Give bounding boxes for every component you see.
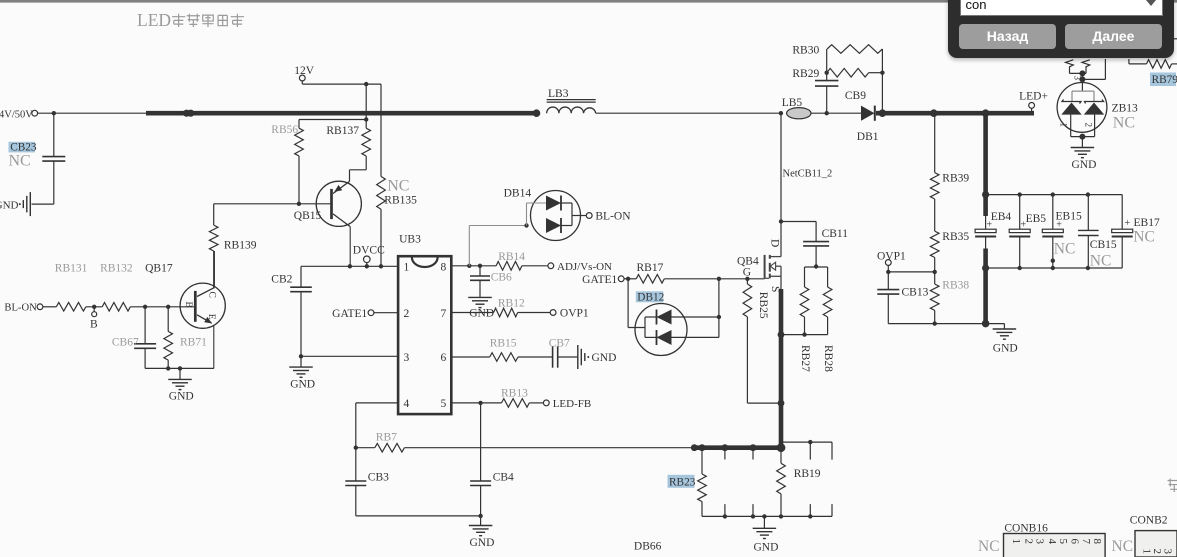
- wire pin6: [451, 356, 489, 358]
- capacitor EB15: [1042, 195, 1082, 268]
- svg-text:CB4: CB4: [493, 471, 514, 483]
- resistor RB38: [930, 280, 969, 324]
- resistor RB27: [799, 287, 811, 372]
- terminal BL-ON right: [586, 211, 631, 223]
- wire input to bus: [38, 112, 146, 114]
- terminal 12V: [294, 65, 315, 84]
- svg-text:RB79: RB79: [1152, 74, 1177, 86]
- svg-text:4: 4: [1046, 539, 1058, 545]
- svg-text:GND: GND: [470, 537, 495, 549]
- svg-text:RB29: RB29: [792, 68, 819, 80]
- wire RB132 to QB17 base: [130, 306, 195, 308]
- ground sideways GND pin6: [578, 345, 617, 369]
- svg-text:OVP1: OVP1: [877, 251, 906, 263]
- node NetCB11_2 junction: [779, 219, 783, 223]
- svg-text:12V: 12V: [294, 65, 315, 77]
- svg-text:CB11: CB11: [822, 228, 849, 240]
- svg-text:BL-ON: BL-ON: [4, 303, 37, 314]
- svg-text:LB5: LB5: [782, 97, 803, 109]
- node ZB13 top a: [1079, 70, 1085, 76]
- capacitor CB13: [877, 272, 928, 324]
- diode ZB13: [1057, 83, 1138, 137]
- svg-text:CB2: CB2: [271, 273, 292, 285]
- node source-RB2728: [778, 331, 785, 338]
- svg-text:8: 8: [440, 261, 446, 273]
- svg-text:RB17: RB17: [637, 262, 664, 274]
- capacitor CB9: [815, 81, 866, 114]
- button Nazad: [959, 24, 1056, 49]
- svg-text:GND: GND: [290, 378, 315, 390]
- node DB12 anode join: [717, 277, 721, 281]
- ground CB2 GND: [289, 356, 315, 390]
- label NC EB15: [1054, 241, 1076, 258]
- node source-RB25: [778, 400, 785, 407]
- svg-text:1: 1: [1141, 549, 1153, 555]
- svg-text:NC: NC: [1133, 229, 1155, 246]
- wire DB12 drop: [628, 279, 645, 328]
- label NC EB17: [1133, 229, 1155, 246]
- label NC CB15: [1090, 253, 1112, 270]
- diode DB1: [857, 106, 879, 143]
- node RB71 tap: [166, 305, 170, 309]
- transistor QB4: [737, 239, 781, 292]
- wire QB4 gate: [765, 277, 769, 279]
- svg-text:RB27: RB27: [799, 345, 811, 372]
- capacitor EB17: [1112, 217, 1160, 268]
- terminal GATE1 right: [582, 274, 624, 286]
- svg-text:OVP1: OVP1: [560, 308, 589, 320]
- node pin5 CB4: [478, 401, 482, 405]
- wire DB66 stub b: [752, 448, 754, 460]
- wire pin1 rail: [301, 265, 398, 267]
- label NC CONB16 right: [1112, 538, 1134, 555]
- svg-text:NC: NC: [1112, 538, 1134, 555]
- label QB17: [145, 263, 173, 275]
- node thick gnd join: [982, 320, 990, 328]
- svg-text:EB5: EB5: [1026, 213, 1047, 225]
- inductor LB3: [547, 88, 596, 113]
- svg-text:6: 6: [1068, 539, 1080, 545]
- wire RB27-28 bottom: [781, 334, 828, 336]
- terminal GATE1 pin2: [332, 308, 398, 320]
- svg-text:+: +: [987, 219, 993, 230]
- capacitor CB23: [32, 157, 66, 205]
- node DB14 in: [524, 223, 528, 227]
- wire CB3-CB4 bottom: [356, 515, 481, 517]
- wire thick input bus: [146, 111, 537, 116]
- svg-text:G: G: [743, 267, 751, 279]
- svg-text:1: 1: [1059, 123, 1069, 128]
- svg-text:3: 3: [1162, 549, 1174, 555]
- ground CB6 GND: [468, 297, 494, 319]
- wire QB15 base link: [214, 203, 332, 205]
- svg-text:CONB2: CONB2: [1130, 515, 1168, 527]
- svg-text:RB15: RB15: [490, 338, 517, 350]
- svg-text:RB56: RB56: [271, 124, 298, 136]
- svg-text:BL-ON: BL-ON: [595, 211, 631, 223]
- svg-text:D: D: [769, 239, 781, 247]
- ground left GND: [0, 192, 30, 216]
- capacitor CB6: [470, 266, 512, 298]
- terminal 4V/50V: [0, 109, 38, 120]
- svg-text:RB28: RB28: [822, 345, 834, 372]
- wire snubber right: [881, 49, 883, 113]
- node RB25 tap: [745, 277, 749, 281]
- node B junction: [90, 305, 98, 331]
- svg-text:RB23: RB23: [669, 476, 696, 488]
- resistor RB19: [777, 448, 821, 517]
- svg-text:4: 4: [404, 398, 410, 410]
- wire RB7 to bus: [404, 447, 693, 449]
- resistor RB17: [624, 262, 664, 283]
- svg-text:RB19: RB19: [794, 468, 821, 480]
- wire CB23 branch: [53, 113, 55, 156]
- inductor LB5: [782, 97, 811, 119]
- wire sense jog: [781, 442, 832, 460]
- node RB38 bottom: [933, 321, 937, 325]
- resistor RB132: [102, 303, 130, 312]
- wire emitter bottom: [145, 367, 214, 369]
- wire thick EB drop: [983, 113, 988, 229]
- svg-text:CONB16: CONB16: [1004, 523, 1048, 535]
- node GND tap QB17: [178, 366, 182, 370]
- svg-text:LB3: LB3: [548, 88, 569, 100]
- wire pin8: [451, 265, 496, 267]
- svg-text:CB9: CB9: [845, 90, 866, 102]
- svg-text:DB66: DB66: [634, 541, 662, 553]
- svg-text:2: 2: [1151, 549, 1163, 555]
- svg-text:NC: NC: [1113, 115, 1135, 132]
- node CB9 bottom: [825, 111, 829, 115]
- label NetCB11_2: [783, 169, 833, 180]
- svg-text:NC: NC: [9, 153, 31, 170]
- terminal LED+: [1019, 90, 1048, 113]
- svg-text:CB6: CB6: [491, 271, 512, 283]
- node CB4 bottom: [478, 514, 482, 518]
- wire EB top bus: [986, 195, 1123, 230]
- node EB top dots: [982, 191, 1090, 198]
- transistor QB15: [294, 181, 362, 266]
- capacitor CB3: [345, 471, 389, 516]
- wire pin5: [451, 402, 501, 404]
- svg-text:RB38: RB38: [942, 280, 969, 292]
- node DB1 out: [879, 109, 887, 117]
- node jog tap: [808, 440, 812, 444]
- svg-text:1: 1: [1010, 539, 1022, 545]
- node EB bank tap: [982, 109, 990, 117]
- wire thick EB lower: [985, 236, 987, 324]
- node DB12 upper out: [717, 315, 721, 319]
- terminal DVCC: [353, 244, 385, 266]
- svg-text:ADJ/Vs-ON: ADJ/Vs-ON: [557, 261, 612, 273]
- wire RB56 bottom: [298, 156, 300, 204]
- capacitor EB5: [1009, 195, 1046, 268]
- wire gate rail: [664, 278, 764, 280]
- svg-text:CB67: CB67: [112, 337, 139, 349]
- wire bottom stubs: [725, 504, 832, 516]
- wire RB137 to QB15: [350, 156, 367, 181]
- svg-text:5: 5: [440, 398, 446, 410]
- wire pin7: [451, 312, 493, 314]
- resistor RB56: [271, 124, 303, 156]
- node sense dots: [691, 443, 786, 452]
- wire CB7 to gnd: [558, 356, 578, 358]
- node QB15 base: [297, 202, 301, 206]
- transistor QB17: [180, 251, 225, 368]
- wire pin3: [301, 355, 398, 357]
- resistor RB39: [930, 113, 969, 199]
- svg-text:DB12: DB12: [637, 291, 664, 303]
- wire jog stub: [809, 442, 811, 460]
- node ZB13 top b: [1079, 76, 1085, 82]
- svg-text:RB13: RB13: [501, 388, 528, 400]
- wire ZB13 right link: [1082, 59, 1105, 79]
- terminal OVP1 pin7: [518, 308, 589, 320]
- wire RB15 to CB7: [518, 356, 553, 358]
- wire to RB132: [86, 306, 102, 308]
- svg-text:CB15: CB15: [1090, 239, 1117, 251]
- terminal LED-FB: [529, 398, 591, 410]
- capacitor CB4: [470, 403, 514, 516]
- svg-text:3: 3: [404, 352, 410, 364]
- node RB29 left: [825, 71, 829, 75]
- capacitor CB15: [1078, 195, 1117, 268]
- label NC CB23: [9, 153, 31, 170]
- resistor stubs above ZB13: [1066, 60, 1090, 74]
- capacitor CB67: [112, 307, 156, 369]
- svg-text:GND: GND: [993, 343, 1018, 355]
- wire QB4 source thick: [780, 276, 782, 447]
- wire sense bottom bus: [702, 515, 832, 517]
- svg-text:RB30: RB30: [792, 45, 819, 57]
- ground QB17 GND: [168, 368, 193, 402]
- resistor RB28: [822, 287, 834, 372]
- label nan char: [1168, 479, 1177, 493]
- node NetCB11_2 tap: [779, 111, 783, 115]
- resistor RB23: [698, 448, 707, 517]
- node input junction: [52, 111, 56, 115]
- svg-text:GND: GND: [0, 199, 19, 211]
- label RB23: [668, 475, 696, 489]
- wire DB14 left link: [469, 226, 526, 266]
- top window bar: [0, 0, 1177, 3]
- svg-text:3: 3: [1073, 76, 1083, 81]
- resistor RB79: [1147, 60, 1177, 69]
- svg-text:GND: GND: [169, 391, 194, 403]
- svg-text:C: C: [207, 292, 217, 298]
- node RB135 join: [379, 264, 383, 268]
- diode DB12: [635, 279, 719, 356]
- label CB23: [9, 142, 37, 154]
- wire thick sense bus: [694, 445, 783, 450]
- svg-text:NetCB11_2: NetCB11_2: [783, 169, 833, 180]
- dialog box: [948, 0, 1174, 58]
- wire pin4: [356, 403, 398, 481]
- node RB7 tap: [354, 446, 358, 450]
- resistor RB35: [930, 199, 969, 284]
- label RB79: [1150, 73, 1177, 87]
- svg-text:+: +: [1125, 218, 1131, 229]
- node RB29 right: [880, 71, 884, 75]
- svg-text:5: 5: [1057, 539, 1069, 545]
- wire LB5 to DB1: [811, 112, 861, 114]
- wire 12V rail: [302, 83, 381, 85]
- svg-text:2: 2: [1084, 123, 1094, 128]
- node bottom dots: [723, 514, 813, 518]
- label NC CONB16 left: [978, 538, 1000, 555]
- svg-text:RB135: RB135: [384, 195, 417, 207]
- svg-text:QB17: QB17: [145, 263, 173, 275]
- wire OVP1 to RB38: [888, 271, 934, 273]
- svg-text:B: B: [90, 319, 98, 331]
- svg-text:DVCC: DVCC: [353, 244, 385, 256]
- label NC RB135: [387, 178, 409, 195]
- wire ZB13 stem: [1073, 73, 1083, 91]
- svg-text:LED: LED: [137, 10, 171, 30]
- svg-text:LED-FB: LED-FB: [553, 398, 592, 410]
- svg-text:UB3: UB3: [399, 234, 421, 246]
- svg-text:GND: GND: [592, 352, 617, 364]
- node CB6 tap: [478, 264, 482, 268]
- node GATE1 join: [626, 277, 630, 281]
- node RB71 bottom: [166, 366, 170, 370]
- node CB2 bottom: [299, 354, 303, 358]
- wire DB66 stub a: [724, 448, 726, 460]
- svg-text:RB35: RB35: [942, 231, 969, 243]
- svg-text:RB7: RB7: [376, 432, 397, 444]
- svg-text:4V/50V: 4V/50V: [0, 109, 33, 120]
- svg-text:7: 7: [440, 308, 446, 320]
- svg-text:RB25: RB25: [757, 292, 769, 319]
- wire RB79 link: [1129, 59, 1147, 64]
- svg-text:6: 6: [440, 352, 446, 364]
- svg-text:RB139: RB139: [224, 240, 257, 252]
- title LED constant-current source circuit: [137, 10, 244, 30]
- svg-text:2: 2: [1022, 539, 1034, 545]
- capacitor CB11: [781, 222, 848, 267]
- ground sense GND: [753, 516, 779, 553]
- node CB11 bottom: [814, 264, 818, 268]
- resistor RB30: [792, 45, 882, 57]
- terminal ADJ/Vs-ON: [522, 261, 612, 273]
- capacitor EB4: [975, 211, 1011, 237]
- dialog dropdown arrow: [1145, 0, 1157, 8]
- svg-text:NC: NC: [1054, 241, 1076, 258]
- resistor RB7: [356, 432, 405, 452]
- node RB56 join: [364, 117, 368, 121]
- svg-text:LED+: LED+: [1019, 90, 1048, 102]
- wire right edge stub: [1173, 38, 1177, 40]
- wire RB139 top: [213, 204, 215, 225]
- resistor RB25: [743, 279, 781, 403]
- resistor RB15: [490, 338, 518, 362]
- wire RB27-28 top: [805, 267, 828, 287]
- resistor RB71: [164, 307, 207, 369]
- node RB27 bottom: [802, 332, 806, 336]
- node DB14 drop: [467, 264, 471, 268]
- wire BL-ON to RB131: [43, 306, 56, 308]
- dialog input: [960, 0, 1163, 16]
- wire RB137 drop: [365, 84, 367, 128]
- resistor RB14: [496, 251, 525, 270]
- op-amp U-chip UB3: [398, 234, 451, 415]
- label NC ZB13: [1113, 115, 1135, 132]
- svg-text:+: +: [1021, 219, 1027, 230]
- svg-text:7: 7: [1080, 539, 1092, 545]
- svg-text:NC: NC: [978, 538, 1000, 555]
- svg-text:EB4: EB4: [991, 211, 1012, 223]
- svg-text:GATE1: GATE1: [332, 308, 367, 320]
- node CB67 tap: [143, 305, 147, 309]
- resistor RB135: [377, 84, 417, 266]
- resistor RB12: [494, 298, 525, 317]
- svg-text:RB39: RB39: [942, 173, 969, 185]
- svg-text:GATE1: GATE1: [582, 274, 617, 286]
- node DVCC join: [365, 264, 369, 268]
- svg-text:NC: NC: [387, 178, 409, 195]
- wire QB4 drain: [780, 113, 782, 256]
- terminal BL-ON left: [4, 303, 42, 314]
- svg-text:CB7: CB7: [549, 338, 570, 350]
- diode DB14: [504, 188, 587, 241]
- wire RB139 to QB17: [213, 251, 215, 288]
- svg-text:RB71: RB71: [180, 337, 207, 349]
- node 12V-RB137: [364, 82, 368, 86]
- svg-text:RB132: RB132: [100, 263, 133, 275]
- svg-text:+: +: [1056, 219, 1062, 230]
- svg-text:RB12: RB12: [498, 298, 525, 310]
- ground ZB13 GND: [1071, 137, 1097, 171]
- svg-text:GND: GND: [469, 308, 494, 320]
- svg-text:1: 1: [404, 261, 410, 273]
- wire thick DB1 to LED+: [876, 111, 1034, 116]
- resistor RB13: [501, 388, 529, 408]
- svg-text:E: E: [206, 314, 216, 320]
- node ZB13 bottom: [1079, 134, 1085, 140]
- label RB132: [100, 263, 133, 275]
- node bus blob: [183, 110, 194, 117]
- label RB131: [55, 263, 88, 275]
- node RB39 tap: [930, 109, 938, 117]
- svg-text:GND: GND: [1072, 159, 1097, 171]
- svg-text:3: 3: [1034, 539, 1046, 545]
- label DB12: [636, 291, 665, 303]
- svg-text:EB17: EB17: [1134, 217, 1160, 229]
- svg-text:CB3: CB3: [368, 471, 389, 483]
- connector CONB2: [1130, 515, 1177, 557]
- resistor RB139: [209, 225, 256, 251]
- connector CONB16: [1004, 523, 1106, 557]
- ground CB4 GND: [469, 516, 495, 549]
- svg-text:RB14: RB14: [498, 251, 525, 263]
- resistor RB131: [56, 303, 86, 312]
- wire gnd bus right: [888, 323, 1004, 325]
- svg-text:DB1: DB1: [857, 131, 879, 143]
- wire LB3 to LB5: [596, 112, 781, 114]
- svg-text:8: 8: [1091, 539, 1103, 545]
- capacitor CB7: [549, 338, 570, 368]
- svg-text:RB137: RB137: [326, 125, 359, 137]
- svg-text:QB15: QB15: [294, 210, 322, 222]
- svg-text:NC: NC: [1090, 253, 1112, 270]
- terminal OVP1 right: [877, 251, 906, 272]
- wire RB56 top link: [299, 120, 366, 129]
- button Dalee: [1065, 24, 1162, 49]
- node EB bottom dots: [982, 259, 1090, 272]
- wire EB bottom bus: [986, 267, 1123, 269]
- resistor RB29: [792, 68, 882, 80]
- svg-text:B: B: [183, 302, 193, 308]
